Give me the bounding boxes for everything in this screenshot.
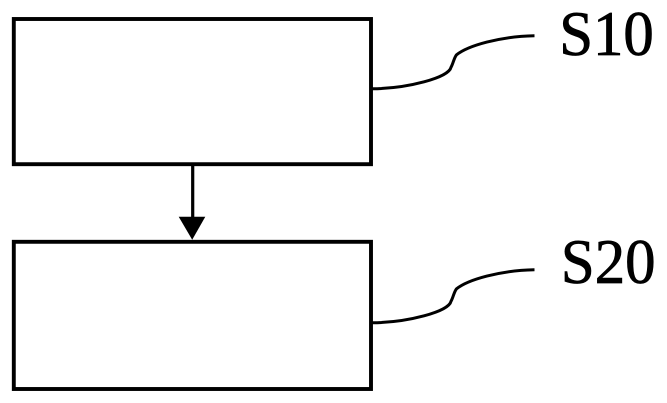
svg-text:S10: S10 (559, 0, 654, 69)
wire: flow arrow shaft from box S10 to box S20 (191, 166, 194, 219)
svg-text:S20: S20 (561, 226, 656, 297)
wire: leader line to label S10 (373, 36, 535, 89)
process box S10 (14, 19, 371, 164)
process box S20 (14, 242, 371, 389)
flow arrowhead (179, 217, 206, 240)
wire: leader line to label S20 (373, 270, 535, 323)
